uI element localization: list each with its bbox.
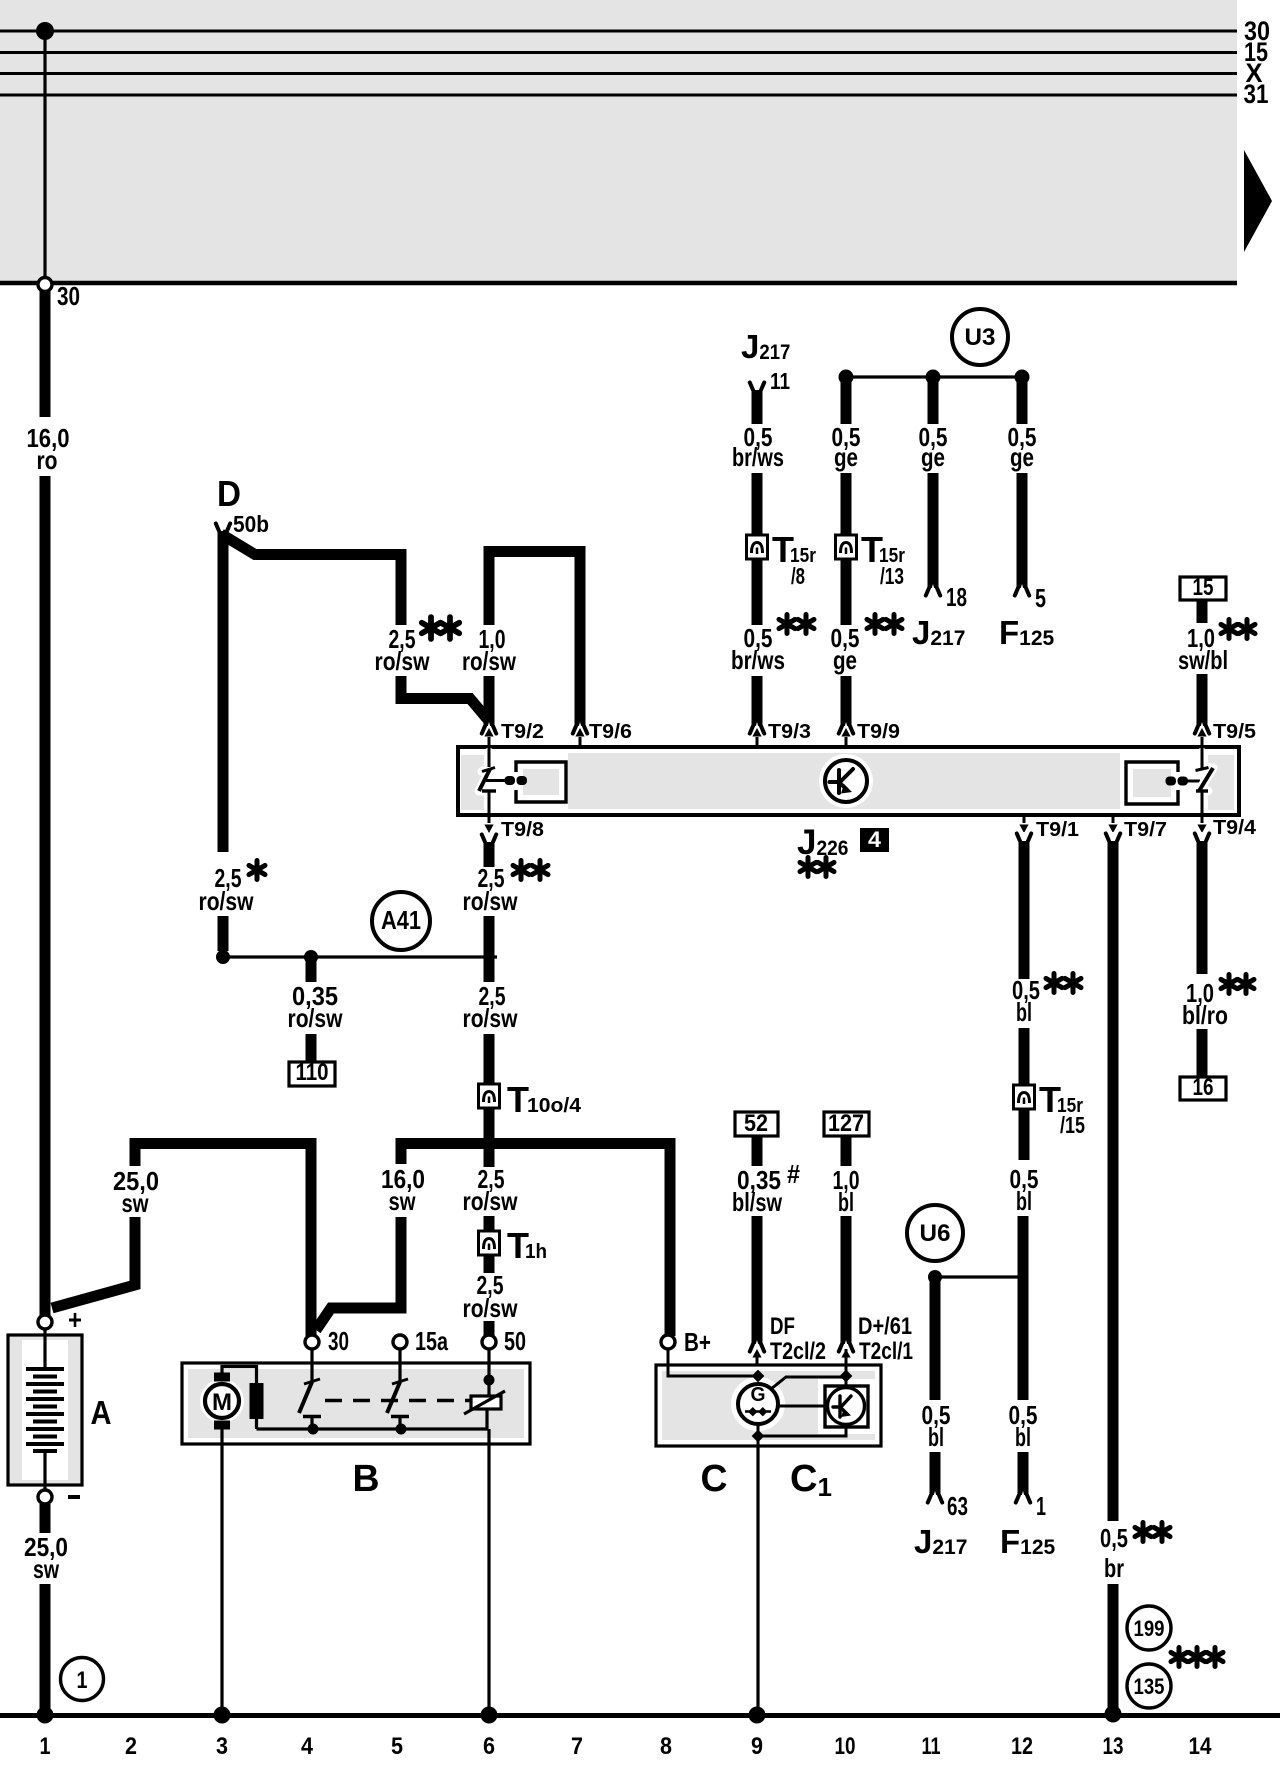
svg-text:3: 3 (216, 1733, 228, 1760)
wire to T15r/13 (841, 473, 852, 535)
svg-text:5: 5 (1035, 583, 1046, 613)
wire below T10o/4 (484, 1108, 495, 1167)
svg-text:DF: DF (770, 1313, 795, 1340)
svg-text:11: 11 (770, 368, 790, 394)
svg-text:ro/sw: ro/sw (288, 1003, 344, 1033)
wire 0,35 bl/sw upper (752, 1136, 763, 1166)
junction ge 2 (926, 370, 941, 385)
starter dashed actuation line (325, 1399, 471, 1402)
ground junction track 13 (1105, 1706, 1122, 1723)
wire 1,0 bl/ro from T9/4 (1195, 832, 1209, 845)
svg-text:J226: J226 (797, 823, 848, 862)
svg-text:110: 110 (296, 1059, 329, 1086)
adapter circle A41 (372, 892, 430, 950)
svg-text:T: T (507, 1079, 529, 1120)
svg-text:ro: ro (37, 445, 58, 475)
bus line 30 (0, 30, 1237, 33)
svg-text:U6: U6 (920, 1220, 951, 1247)
wire 25,0 sw bus to terminal 30 (135, 1144, 311, 1337)
wire 0,5 ge C lower (1017, 473, 1028, 588)
J226 asterisks (800, 858, 816, 877)
regulator C1 symbol K (825, 1386, 868, 1427)
svg-text:15: 15 (1193, 574, 1214, 601)
connector T15r/8 (747, 535, 768, 559)
svg-text:sw: sw (389, 1186, 417, 1216)
wire 0,35 ro/sw (306, 957, 317, 982)
svg-text:ro/sw: ro/sw (462, 646, 517, 676)
svg-text:2: 2 (125, 1733, 137, 1760)
svg-text:bl: bl (928, 1422, 944, 1452)
svg-text:50: 50 (504, 1326, 526, 1356)
wire 1,0 ro/sw T9/2-T9/6 bridge (489, 552, 580, 727)
svg-text:10o/4: 10o/4 (527, 1095, 582, 1117)
svg-text:A41: A41 (381, 905, 421, 935)
battery + terminal (38, 1315, 52, 1329)
svg-text:T9/5: T9/5 (1213, 721, 1256, 743)
svg-text:A: A (91, 1394, 112, 1431)
svg-text:/8: /8 (791, 563, 805, 589)
svg-text:F125: F125 (1000, 1523, 1056, 1560)
wire 1,0 ro/sw into T9/2 (484, 676, 495, 726)
svg-text:52: 52 (744, 1110, 768, 1137)
terminal 15a (393, 1335, 407, 1349)
J226 plug pair right (1166, 777, 1177, 786)
wire to T1h (484, 1216, 495, 1231)
svg-text:ge: ge (834, 442, 858, 472)
wire starter relay to ground (487, 1429, 490, 1713)
terminal 11 fork (750, 381, 764, 394)
svg-text:sw: sw (33, 1554, 60, 1584)
junction starter bus 2 (396, 1424, 407, 1435)
wire 0,5 br from T9/7 (1106, 832, 1120, 845)
wire 16,0 ro lower (40, 476, 51, 1316)
J226 internal contact line right (1186, 780, 1200, 783)
wire 1,0 bl into D+/61 (841, 1216, 852, 1344)
wire starter M to ground (220, 1428, 223, 1713)
current track circle 1 (61, 1658, 104, 1701)
wire 0,35 bl/sw into DF (752, 1216, 763, 1344)
junction DF- node bottom (752, 1430, 765, 1443)
battery cell plates (26, 1369, 64, 1451)
wire 0,5 br to ground (1108, 1584, 1119, 1713)
svg-text:sw/bl: sw/bl (1178, 645, 1228, 675)
wire 0,35 ro/sw lower (306, 1034, 317, 1062)
svg-text:bl: bl (838, 1187, 854, 1217)
svg-text:1h: 1h (525, 1241, 547, 1263)
bus line 31 (0, 94, 1237, 97)
pin T9/3 (750, 722, 764, 735)
svg-text:T9/4: T9/4 (1213, 817, 1257, 839)
generator G symbol (738, 1384, 778, 1424)
wire generator to ground (756, 1446, 759, 1713)
svg-text:T9/7: T9/7 (1124, 819, 1167, 841)
starter relay coil (487, 1349, 490, 1396)
svg-text:F125: F125 (999, 614, 1055, 651)
junction ge 1 (839, 370, 854, 385)
svg-text:T9/9: T9/9 (857, 721, 900, 743)
wire 0,5 bl through U6 node (1018, 1216, 1029, 1400)
svg-text:+: + (68, 1304, 82, 1335)
wire A41 interconnect (223, 955, 497, 958)
wire 1,0 bl upper (841, 1136, 852, 1166)
svg-text:ge: ge (833, 645, 857, 675)
wire 0,5 ge B lower (928, 473, 939, 588)
svg-text:ge: ge (1010, 442, 1034, 472)
pin T9/8 arrow (488, 815, 491, 823)
svg-text:T2cl/2: T2cl/2 (770, 1338, 826, 1365)
svg-text:#: # (787, 1159, 800, 1189)
battery A box (8, 1335, 82, 1485)
svg-text:J217: J217 (912, 614, 965, 651)
connection U6 circle (907, 1205, 963, 1261)
svg-text:bl: bl (1016, 1186, 1032, 1216)
designation box 127 (824, 1112, 869, 1136)
starter B box (182, 1363, 530, 1444)
svg-text:9: 9 (751, 1733, 763, 1760)
designation box 52 (735, 1112, 778, 1136)
svg-text:U3: U3 (965, 324, 996, 351)
wire below T1h (484, 1255, 495, 1273)
wire 2,5 ro/sw to A41 node (218, 916, 229, 951)
connector T10o/4 (479, 1084, 500, 1108)
svg-text:11: 11 (922, 1733, 941, 1760)
wire to T10o/4 (484, 1034, 495, 1084)
svg-text:16: 16 (1193, 1074, 1214, 1101)
node line U6 (935, 1275, 1025, 1278)
svg-text:T9/2: T9/2 (501, 721, 544, 743)
band bottom border (0, 281, 1237, 286)
connector T1h (479, 1231, 500, 1255)
current track circle 199 (1127, 1606, 1171, 1650)
svg-text:50b: 50b (233, 511, 269, 537)
svg-text:/13: /13 (880, 563, 904, 589)
svg-text:1: 1 (40, 1733, 51, 1760)
junction node 110 branch (304, 950, 318, 964)
ground junction track 9 (749, 1707, 766, 1724)
node line U3 (846, 375, 1022, 378)
wire into T9/9 (841, 676, 852, 726)
J226 internal switch right (1196, 752, 1214, 791)
svg-text:6: 6 (483, 1733, 495, 1760)
junction node A41 left (216, 950, 230, 964)
wire 2,5 ro/sw from 50b vertical (218, 531, 229, 852)
bus line 15 (0, 51, 1237, 54)
wire 1,0 bl/ro lower (1197, 1029, 1208, 1077)
wire into terminal 50 (484, 1321, 495, 1336)
designation box 15 (1180, 577, 1226, 600)
svg-text:J217: J217 (914, 1523, 967, 1560)
terminal B+ (661, 1335, 675, 1349)
connection U3 circle (952, 309, 1008, 365)
junction U6 (928, 1270, 942, 1284)
svg-text:T9/1: T9/1 (1036, 819, 1079, 841)
wire 1,0 sw/bl upper (1197, 600, 1208, 623)
starter switch contact 15a (398, 1349, 401, 1381)
pin T9/9 (839, 722, 853, 735)
relay symbol K in J226 (819, 754, 873, 808)
direction arrow (1244, 150, 1272, 252)
svg-text:ro/sw: ro/sw (463, 1003, 519, 1033)
svg-text:30: 30 (57, 281, 80, 311)
bus line X (0, 72, 1237, 75)
wire 50b branch to T9/2 loop upper (221, 534, 401, 625)
terminal 5 fork (1015, 584, 1029, 597)
battery internal leads (43, 1330, 46, 1368)
svg-text:G: G (751, 1384, 766, 1406)
ground junction track 6 (481, 1707, 498, 1724)
wire into J217 pin 63 (930, 1452, 941, 1495)
svg-text:135: 135 (1134, 1674, 1165, 1699)
svg-text:4: 4 (868, 827, 882, 852)
wire into fuse F125 pin 1 (1018, 1452, 1029, 1495)
svg-text:C1: C1 (790, 1458, 832, 1502)
svg-text:D: D (217, 473, 241, 514)
wire below T15r/15 (1019, 1108, 1030, 1160)
connector T15r/15 (1014, 1085, 1035, 1109)
designation box 110 (289, 1062, 335, 1086)
svg-text:J217: J217 (741, 328, 790, 365)
starter internal bus (257, 1427, 489, 1430)
svg-text:bl: bl (1015, 1422, 1031, 1452)
terminal 18 fork (926, 584, 940, 597)
svg-text:br: br (1104, 1553, 1124, 1583)
wire below T15r/8 (752, 558, 763, 625)
svg-text:/15: /15 (1060, 1112, 1085, 1138)
starter series winding (222, 1367, 257, 1385)
svg-text:0,5: 0,5 (1100, 1523, 1128, 1553)
J226 internal frame right (1208, 755, 1234, 810)
svg-text:bl/ro: bl/ro (1182, 1000, 1228, 1030)
wire 0,5 ge A upper (841, 377, 852, 424)
svg-text:30: 30 (328, 1326, 349, 1356)
wire 25,0 sw battery negative upper (40, 1504, 51, 1533)
svg-text:ro/sw: ro/sw (463, 886, 519, 916)
J226 internal frame left (516, 762, 566, 802)
svg-text:18: 18 (946, 582, 967, 612)
wire into T9/3 (752, 676, 763, 726)
svg-text:12: 12 (1011, 1733, 1033, 1760)
starter switch contact 30 (310, 1349, 313, 1381)
svg-text:10: 10 (835, 1733, 856, 1760)
terminal 30 (38, 278, 52, 292)
svg-text:sw: sw (122, 1188, 150, 1218)
wire 2,5 ro/sw mid (484, 916, 495, 982)
svg-text:T9/6: T9/6 (589, 721, 632, 743)
terminal 30 starter (305, 1335, 319, 1349)
svg-text:14: 14 (1189, 1733, 1213, 1760)
current track circle 135 (1127, 1664, 1171, 1708)
J226 internal contact line left (486, 779, 508, 782)
terminal D 50b fork (216, 522, 230, 535)
svg-text:B+: B+ (684, 1327, 711, 1357)
generator internal wiring (731, 1377, 785, 1431)
terminal 50 (482, 1335, 496, 1349)
svg-text:ro/sw: ro/sw (375, 646, 431, 676)
svg-text:5: 5 (391, 1733, 403, 1760)
svg-text:M: M (212, 1389, 232, 1416)
svg-text:63: 63 (947, 1491, 968, 1521)
J226 internal switch left (461, 755, 484, 810)
wire 0,5 ge C upper (1017, 377, 1028, 424)
wire 2,5 ro/sw from T9/8 (482, 833, 496, 846)
svg-text:ro/sw: ro/sw (463, 1293, 519, 1323)
svg-text:127: 127 (828, 1110, 864, 1137)
svg-text:199: 199 (1134, 1616, 1165, 1641)
wire to T15r/15 (1019, 1028, 1030, 1085)
svg-text:br/ws: br/ws (731, 645, 785, 675)
svg-text:1: 1 (1036, 1491, 1046, 1521)
svg-text:15a: 15a (415, 1326, 448, 1356)
wire 16,0 sw from terminal 30 (316, 1217, 401, 1330)
wire 50b branch lower to T9/2 (401, 676, 489, 721)
svg-text:13: 13 (1103, 1733, 1124, 1760)
svg-text:C: C (701, 1458, 728, 1500)
svg-text:8: 8 (660, 1733, 672, 1760)
svg-text:ro/sw: ro/sw (199, 886, 255, 916)
wire 0,5 bl J217 upper (930, 1277, 941, 1400)
svg-text:bl: bl (1016, 997, 1032, 1027)
control unit J226 box (458, 747, 1239, 815)
starter motor M (200, 1379, 244, 1423)
svg-text:31: 31 (1244, 79, 1269, 109)
ground junction track 3 (214, 1707, 231, 1724)
svg-text:T2cl/1: T2cl/1 (859, 1338, 913, 1365)
pin T9/5 (1195, 722, 1209, 735)
svg-text:T9/3: T9/3 (768, 721, 811, 743)
wire 1,0 sw/bl into T9/5 (1197, 674, 1208, 726)
junction D+ node (840, 1370, 853, 1383)
svg-text:B: B (353, 1458, 380, 1500)
svg-text:4: 4 (301, 1733, 314, 1760)
svg-text:7: 7 (571, 1733, 583, 1760)
pin D+/61 arrow (841, 1349, 850, 1358)
triple asterisk note (1171, 1648, 1187, 1667)
wire 16,0 ro upper (40, 290, 51, 417)
junction DF node (752, 1370, 765, 1383)
pin DF arrow (752, 1349, 761, 1358)
generator C box (656, 1365, 881, 1446)
wire 25,0 sw riser (52, 1217, 135, 1308)
svg-text:T9/8: T9/8 (501, 819, 544, 841)
power rail band background (0, 0, 1237, 283)
junction on bus 30 (36, 22, 54, 40)
wire 25,0 sw battery negative lower (40, 1584, 51, 1714)
svg-text:D+/61: D+/61 (858, 1313, 912, 1340)
designation box 16 (1180, 1077, 1226, 1100)
battery - terminal (38, 1490, 52, 1504)
ground junction track 1 (37, 1707, 54, 1724)
svg-text:1: 1 (77, 1667, 88, 1694)
wire 0,5 br/ws upper (752, 390, 763, 424)
wire 16,0 sw bus to B+ (401, 1144, 670, 1337)
wire from bus 30 to terminal 30 (43, 31, 46, 278)
junction starter bus 1 (308, 1424, 319, 1435)
J226 plug pair left (505, 776, 516, 785)
junction ge 3 (1015, 370, 1030, 385)
wire 0,5 ge B upper (928, 377, 939, 424)
connector T15r/13 (836, 535, 857, 559)
wire to T15r/8 (752, 473, 763, 535)
wire below T15r/13 (841, 558, 852, 625)
ground rail (0, 1713, 1280, 1718)
svg-text:br/ws: br/ws (732, 442, 784, 472)
svg-text:ge: ge (921, 442, 945, 472)
wire 0,5 bl from T9/1 (1017, 832, 1031, 845)
svg-text:ro/sw: ro/sw (463, 1186, 519, 1216)
svg-text:bl/sw: bl/sw (732, 1187, 783, 1217)
